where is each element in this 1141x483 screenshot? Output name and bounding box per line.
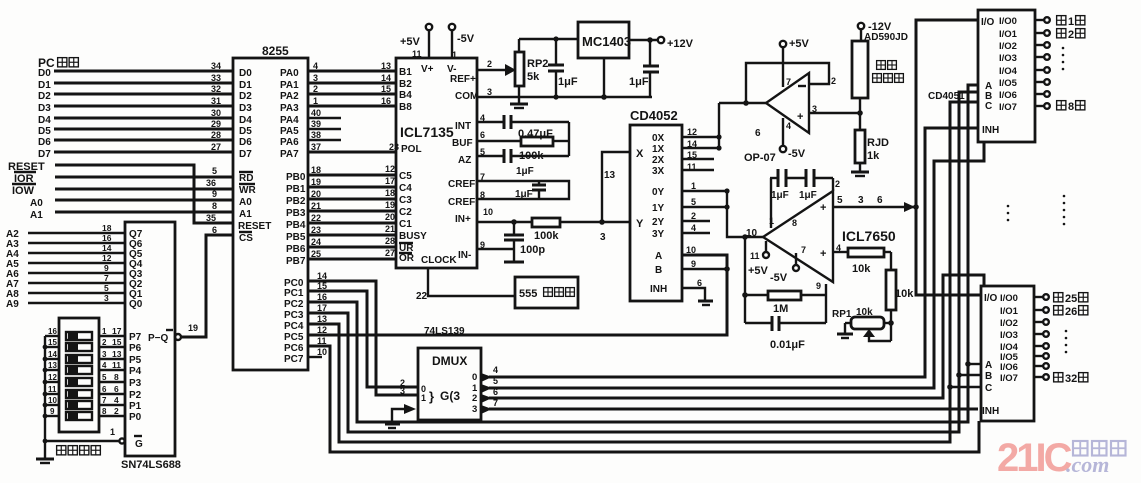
svg-text:.com: .com xyxy=(1066,452,1109,477)
svg-text:14: 14 xyxy=(381,73,391,83)
svg-text:Y: Y xyxy=(636,218,644,230)
svg-text:3: 3 xyxy=(104,293,109,303)
wire IOR xyxy=(14,172,233,185)
svg-text:36: 36 xyxy=(206,178,216,188)
mux U CD4051 lower xyxy=(981,286,1034,421)
svg-text:I/O3: I/O3 xyxy=(1000,330,1018,341)
svg-text:39: 39 xyxy=(311,119,321,129)
wire D0 xyxy=(38,68,233,79)
svg-text:C1: C1 xyxy=(399,219,412,230)
svg-text:I/O1: I/O1 xyxy=(1000,306,1019,317)
svg-text:D2: D2 xyxy=(38,91,51,102)
wire A2 xyxy=(6,229,125,240)
node ellipsis middle chips xyxy=(1007,195,1066,226)
wire PA7 to POL xyxy=(308,151,396,154)
wire PA5 stub xyxy=(308,128,341,130)
node channel 2 label xyxy=(1057,29,1066,38)
svg-text:9: 9 xyxy=(691,259,696,269)
wire PB1 to C4 xyxy=(308,186,396,189)
svg-text:1: 1 xyxy=(1068,16,1074,28)
power -5V terminal ICL7650 xyxy=(770,253,799,284)
svg-text:PC3: PC3 xyxy=(284,310,304,321)
svg-text:10k: 10k xyxy=(856,307,873,318)
svg-text:7: 7 xyxy=(801,245,806,255)
svg-text:6: 6 xyxy=(755,128,761,139)
watermark dianziwang xyxy=(1073,441,1126,456)
svg-text:5: 5 xyxy=(212,166,217,176)
wire DMUX out3 to lower CD4051 INH xyxy=(481,405,978,414)
svg-text:MC1403: MC1403 xyxy=(582,34,631,49)
svg-text:REF+: REF+ xyxy=(450,74,476,85)
pin numbers DMUX xyxy=(400,365,498,408)
svg-text:CD4051: CD4051 xyxy=(928,91,965,102)
svg-text:IOW: IOW xyxy=(12,185,35,197)
svg-text:PC7: PC7 xyxy=(284,354,304,365)
pin numbers ICL7135 analog side xyxy=(480,59,493,250)
svg-text:P2: P2 xyxy=(129,390,142,401)
svg-text:D6: D6 xyxy=(239,137,252,148)
svg-text:I/O0: I/O0 xyxy=(999,16,1017,27)
wire 3X stub xyxy=(682,169,714,171)
svg-text:8: 8 xyxy=(114,372,119,382)
svg-text:1: 1 xyxy=(102,327,107,336)
svg-text:1μF: 1μF xyxy=(515,189,533,200)
svg-text:B: B xyxy=(985,371,992,382)
svg-text:13: 13 xyxy=(604,170,616,181)
wire A9 xyxy=(6,299,125,310)
power +5V terminal ICL7650 xyxy=(748,241,769,277)
svg-text:6: 6 xyxy=(697,278,702,288)
pin numbers 8255 PA xyxy=(311,61,321,152)
svg-text:C2: C2 xyxy=(399,207,412,218)
wire D2 xyxy=(38,91,233,102)
svg-text:12: 12 xyxy=(385,164,395,174)
svg-text:0Y: 0Y xyxy=(652,187,665,198)
op-amp U3 ICL7650 xyxy=(746,179,896,291)
wire CD4052 INH xyxy=(682,288,705,300)
svg-text:9: 9 xyxy=(104,263,109,273)
svg-text:11: 11 xyxy=(750,251,760,261)
svg-text:5: 5 xyxy=(102,373,107,382)
svg-text:ICL7135: ICL7135 xyxy=(400,124,454,140)
wire MC1403 output to +12V xyxy=(629,37,658,43)
svg-text:28: 28 xyxy=(385,236,395,246)
svg-text:10: 10 xyxy=(483,207,493,217)
svg-text:555: 555 xyxy=(519,288,537,300)
svg-text:13: 13 xyxy=(48,361,57,370)
svg-text:A0: A0 xyxy=(239,197,252,208)
wire RP1 wiper loop xyxy=(863,329,891,341)
wire A0 xyxy=(30,198,233,209)
svg-text:I/O6: I/O6 xyxy=(999,90,1017,101)
wire IOW xyxy=(12,184,233,197)
svg-text:D5: D5 xyxy=(239,126,252,137)
svg-text:32: 32 xyxy=(1065,373,1077,385)
svg-text:-5V: -5V xyxy=(788,148,806,160)
svg-text:21IC: 21IC xyxy=(997,436,1072,480)
svg-text:CD4052: CD4052 xyxy=(630,108,678,123)
svg-text:G(3: G(3 xyxy=(440,389,460,403)
wire PB7 to OR xyxy=(308,258,396,261)
svg-text:8: 8 xyxy=(212,201,217,211)
wire INT integrator xyxy=(477,115,569,129)
mux U CD4052 xyxy=(630,108,682,301)
svg-text:SN74LS688: SN74LS688 xyxy=(121,459,181,471)
svg-text:19: 19 xyxy=(188,323,198,333)
wire 0X channel xyxy=(682,136,719,138)
svg-text:ICL7650: ICL7650 xyxy=(842,228,896,244)
wire PC1 to DMUX in0 xyxy=(308,291,418,387)
svg-text:INH: INH xyxy=(982,406,999,417)
svg-text:I/O: I/O xyxy=(984,293,998,304)
svg-text:A: A xyxy=(655,251,662,262)
resistor RJD 1k xyxy=(855,130,889,171)
wire DMUX out1 xyxy=(481,142,984,393)
svg-text:RJD: RJD xyxy=(867,137,889,149)
PPI U 8255 xyxy=(233,44,308,370)
svg-text:CLOCK: CLOCK xyxy=(421,255,457,266)
svg-text:3: 3 xyxy=(487,87,492,97)
svg-text:16: 16 xyxy=(381,96,391,106)
power -12V terminal AD590 xyxy=(858,21,892,33)
svg-text:OR: OR xyxy=(399,253,415,264)
svg-text:3: 3 xyxy=(858,195,864,206)
svg-text:+: + xyxy=(797,111,803,123)
svg-text:11: 11 xyxy=(48,385,57,394)
ground RJD xyxy=(851,172,869,176)
wire CLOCK pin 22 xyxy=(416,268,515,302)
ground DIP switch bus xyxy=(36,459,54,463)
node channel 26 label xyxy=(1054,306,1063,315)
svg-text:PC2: PC2 xyxy=(284,299,304,310)
power -5V terminal OP-07 xyxy=(780,118,806,160)
decoder U 74LS139 DMUX xyxy=(418,326,481,420)
svg-text:I/O0: I/O0 xyxy=(1000,293,1018,304)
svg-text:26: 26 xyxy=(1065,306,1077,318)
svg-text:6: 6 xyxy=(212,225,217,235)
svg-text:2: 2 xyxy=(487,59,492,69)
svg-text:+: + xyxy=(820,248,826,260)
svg-text:P0: P0 xyxy=(129,412,142,423)
wire PA0 to B1 xyxy=(308,70,396,73)
wire PC0 to DMUX in1 xyxy=(308,281,418,395)
wire A1 xyxy=(30,210,233,221)
wire PB0 to C5 xyxy=(308,174,396,177)
svg-text:15: 15 xyxy=(48,338,57,347)
svg-text:D7: D7 xyxy=(239,149,252,160)
svg-text:15: 15 xyxy=(381,84,391,94)
svg-text:PC1: PC1 xyxy=(284,288,304,299)
wire IN+ with 100k xyxy=(477,218,630,242)
svg-text:BUSY: BUSY xyxy=(399,231,427,242)
svg-text:OP-07: OP-07 xyxy=(744,152,776,164)
svg-text:27: 27 xyxy=(211,142,221,152)
svg-text:C: C xyxy=(985,101,992,112)
svg-text:+12V: +12V xyxy=(667,38,694,50)
svg-text:PB3: PB3 xyxy=(286,208,306,219)
wire Y channels to ICL7650 output xyxy=(727,191,763,237)
svg-text:P3: P3 xyxy=(129,378,142,389)
svg-text:}: } xyxy=(429,389,434,404)
svg-text:I/O2: I/O2 xyxy=(999,41,1017,52)
wire D7 xyxy=(38,149,233,160)
svg-text:21: 21 xyxy=(385,224,395,234)
wire REF+ to RP2 xyxy=(477,69,507,71)
svg-text:INH: INH xyxy=(982,125,999,136)
wire MC1403 ground leg xyxy=(601,58,607,100)
wire PA6 stub xyxy=(308,139,341,141)
wire CD4052 B tap xyxy=(682,268,727,270)
svg-text:AD590JD: AD590JD xyxy=(864,32,908,43)
svg-text:PA0: PA0 xyxy=(280,68,299,79)
svg-text:30: 30 xyxy=(211,108,221,118)
potentiometer RP1 10k xyxy=(832,307,891,329)
svg-text:12: 12 xyxy=(48,373,57,382)
svg-text:3Y: 3Y xyxy=(652,229,665,240)
svg-text:8: 8 xyxy=(1068,101,1074,113)
wire AD590 to node xyxy=(859,98,861,130)
svg-text:9: 9 xyxy=(212,189,217,199)
svg-text:4: 4 xyxy=(102,361,107,370)
wire analog common bus xyxy=(913,20,981,295)
potentiometer RP2 5k xyxy=(515,39,548,97)
svg-text:PC6: PC6 xyxy=(284,343,304,354)
node junctions 0X 1X xyxy=(716,103,721,151)
svg-text:INT: INT xyxy=(455,121,471,132)
svg-text:9: 9 xyxy=(816,281,821,291)
svg-text:1Y: 1Y xyxy=(652,203,665,214)
power +12V terminal xyxy=(658,37,694,50)
wire PC6 to lower CD4051 xyxy=(308,346,979,452)
svg-text:WR: WR xyxy=(239,185,256,196)
svg-text:PA1: PA1 xyxy=(280,80,299,91)
svg-text:I/O5: I/O5 xyxy=(999,78,1018,89)
svg-text:B2: B2 xyxy=(399,79,412,90)
svg-text:-5V: -5V xyxy=(457,33,475,45)
svg-text:C: C xyxy=(985,383,992,394)
wire PA3 to B8 xyxy=(308,105,396,108)
svg-text:COM: COM xyxy=(455,91,478,102)
node ellipsis upper channels xyxy=(1062,47,1065,71)
svg-text:Q0: Q0 xyxy=(129,299,143,310)
svg-text:PB5: PB5 xyxy=(286,232,306,243)
svg-text:5: 5 xyxy=(691,197,696,207)
svg-text:IN-: IN- xyxy=(458,250,471,261)
wire PC5 to CD4052 A B xyxy=(308,255,727,335)
svg-text:0.01μF: 0.01μF xyxy=(770,339,805,351)
wire PB2 to C3 xyxy=(308,198,396,201)
svg-text:A0: A0 xyxy=(30,198,43,209)
svg-text:10: 10 xyxy=(686,245,696,255)
wire PA4 stub xyxy=(308,117,341,119)
wire OP-07 feedback xyxy=(746,63,829,103)
svg-text:C5: C5 xyxy=(399,171,412,182)
switch S1 DIP micro switch xyxy=(48,318,107,455)
wire AZ xyxy=(477,122,569,177)
wire A8 xyxy=(6,289,125,300)
svg-text:I/O3: I/O3 xyxy=(999,53,1017,64)
wire PB4 to C1 xyxy=(308,222,396,225)
svg-text:100p: 100p xyxy=(520,244,545,256)
svg-text:38: 38 xyxy=(311,130,321,140)
wire RESET xyxy=(8,161,233,223)
wire reference top rail xyxy=(519,38,578,40)
svg-text:I/O7: I/O7 xyxy=(1000,373,1018,384)
svg-text:40: 40 xyxy=(311,108,321,118)
svg-text:2: 2 xyxy=(472,393,477,404)
svg-text:6: 6 xyxy=(480,130,485,140)
svg-text:4: 4 xyxy=(786,121,791,131)
wire A5 xyxy=(6,259,125,270)
svg-text:13: 13 xyxy=(381,61,391,71)
svg-text:1μF: 1μF xyxy=(771,190,789,201)
svg-text:C3: C3 xyxy=(399,195,412,206)
svg-text:RD: RD xyxy=(239,173,253,184)
svg-text:PB6: PB6 xyxy=(286,244,306,255)
svg-text:A1: A1 xyxy=(239,209,252,220)
svg-text:1M: 1M xyxy=(773,303,788,315)
svg-text:I/O1: I/O1 xyxy=(999,29,1018,40)
pin numbers 8255 PC xyxy=(317,271,327,357)
pin numbers 8255 PB xyxy=(311,165,321,259)
svg-text:POL: POL xyxy=(401,144,422,155)
svg-text:PA2: PA2 xyxy=(280,91,299,102)
svg-text:8: 8 xyxy=(102,407,107,416)
svg-text:6: 6 xyxy=(102,385,107,394)
op-amp U2 OP-07 buffer xyxy=(744,73,836,164)
pin numbers 8255 control side xyxy=(206,166,217,235)
svg-text:1: 1 xyxy=(110,427,115,437)
svg-text:10k: 10k xyxy=(895,288,914,300)
svg-text:2: 2 xyxy=(691,211,696,221)
svg-text:PA7: PA7 xyxy=(280,149,299,160)
svg-text:10k: 10k xyxy=(852,263,871,275)
terminals lower CD4051 channels xyxy=(1034,294,1049,380)
svg-text:1μF: 1μF xyxy=(629,76,649,88)
wire clock caps to pin 2 xyxy=(771,178,833,228)
svg-text:4: 4 xyxy=(114,395,119,405)
svg-text:3: 3 xyxy=(472,404,477,415)
svg-text:14: 14 xyxy=(48,350,57,359)
svg-text:A1: A1 xyxy=(30,210,43,221)
svg-text:PA5: PA5 xyxy=(280,126,299,137)
svg-text:I/O2: I/O2 xyxy=(1000,318,1018,329)
svg-text:P7: P7 xyxy=(129,332,142,343)
svg-text:CREF: CREF xyxy=(448,197,475,208)
capacitor C 0.01uF feedback xyxy=(745,284,826,351)
svg-text:4: 4 xyxy=(493,365,498,375)
svg-text:100k: 100k xyxy=(534,230,559,242)
svg-text:D5: D5 xyxy=(38,126,51,137)
ground IN- xyxy=(504,249,524,262)
power +5V terminal ICL7135 xyxy=(400,24,432,59)
svg-text:33: 33 xyxy=(211,73,221,83)
wire 2X stub xyxy=(682,158,714,160)
node channel 1 label xyxy=(1057,16,1066,25)
svg-text:I/O: I/O xyxy=(981,17,995,28)
svg-text:DMUX: DMUX xyxy=(432,354,467,368)
svg-text:18: 18 xyxy=(385,188,395,198)
svg-text:5: 5 xyxy=(104,283,109,293)
svg-text:I/O6: I/O6 xyxy=(1000,362,1018,373)
svg-text:7: 7 xyxy=(104,273,109,283)
capacitor C 1uF clock b xyxy=(786,169,833,201)
svg-text:18: 18 xyxy=(102,223,112,233)
wire COM bottom rail xyxy=(477,96,652,98)
svg-text:I/O4: I/O4 xyxy=(999,66,1018,77)
capacitor C 100p xyxy=(504,222,545,256)
node channel 25 label xyxy=(1054,293,1063,302)
svg-text:23: 23 xyxy=(389,142,399,152)
wire D1 xyxy=(38,80,233,91)
svg-text:17: 17 xyxy=(385,176,395,186)
wire DIP left common bus xyxy=(43,336,59,459)
svg-text:P1: P1 xyxy=(129,401,142,412)
wire A3 xyxy=(6,239,125,250)
svg-text:G: G xyxy=(135,439,143,450)
svg-text:5k: 5k xyxy=(527,71,540,83)
wire CS from P=Q to 8255 xyxy=(181,235,233,337)
svg-text:PB1: PB1 xyxy=(286,184,306,195)
svg-text:32: 32 xyxy=(211,84,221,94)
voltage reference U MC1403 xyxy=(578,22,631,58)
svg-text:16: 16 xyxy=(48,327,57,336)
svg-text:27: 27 xyxy=(385,248,395,258)
svg-text:3: 3 xyxy=(600,232,606,243)
svg-text:20: 20 xyxy=(385,212,395,222)
wire CD4052 X common xyxy=(600,152,630,243)
pin numbers SN74LS688 P inputs xyxy=(112,326,122,416)
svg-text:C4: C4 xyxy=(399,183,412,194)
svg-text:D1: D1 xyxy=(239,80,252,91)
svg-text:B4: B4 xyxy=(399,90,412,101)
svg-text:1μF: 1μF xyxy=(558,76,578,88)
svg-text:D3: D3 xyxy=(38,103,51,114)
svg-text:2Y: 2Y xyxy=(652,217,665,228)
svg-text:5: 5 xyxy=(837,195,843,206)
wire PB5 to BUSY xyxy=(308,234,396,237)
power -5V terminal ICL7135 xyxy=(449,24,475,60)
comparator U SN74LS688 xyxy=(121,222,181,471)
svg-text:1: 1 xyxy=(421,393,426,403)
svg-text:12: 12 xyxy=(102,253,112,263)
pin 19 P=Q output bubble xyxy=(175,323,198,340)
resistor R 10k to RP1 xyxy=(886,252,914,341)
svg-text:I/O7: I/O7 xyxy=(999,102,1017,113)
pin numbers 8255 data bus side xyxy=(211,61,221,152)
pin numbers CD4052 channels xyxy=(686,127,702,288)
svg-text:PB7: PB7 xyxy=(286,256,306,267)
svg-text:D4: D4 xyxy=(38,115,51,126)
svg-text:4: 4 xyxy=(691,223,696,233)
wire PB6 to UR xyxy=(308,246,396,249)
svg-text:D4: D4 xyxy=(239,115,252,126)
svg-text:15: 15 xyxy=(112,337,122,347)
svg-text:+5V: +5V xyxy=(400,36,421,48)
svg-text:P6: P6 xyxy=(129,343,142,354)
wire PA2 to B4 xyxy=(308,93,396,96)
ground DMUX enable xyxy=(385,404,416,428)
sensor U AD590JD temperature xyxy=(852,29,908,98)
svg-text:11: 11 xyxy=(112,360,121,370)
svg-text:B8: B8 xyxy=(399,102,412,113)
svg-text:13: 13 xyxy=(112,349,122,359)
svg-text:6: 6 xyxy=(877,195,883,206)
svg-text:9: 9 xyxy=(50,407,55,416)
svg-text:RP2: RP2 xyxy=(527,58,548,70)
svg-text:16: 16 xyxy=(102,233,112,243)
ground CD4052 INH xyxy=(698,301,713,305)
